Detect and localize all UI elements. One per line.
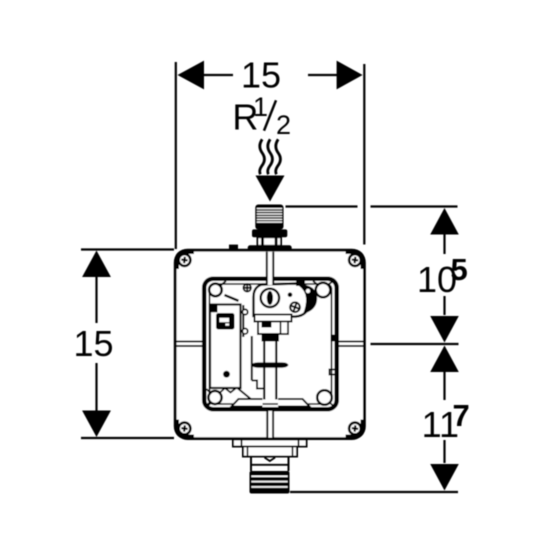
svg-text:7: 7 bbox=[453, 398, 470, 433]
svg-text:15: 15 bbox=[241, 55, 281, 96]
svg-text:5: 5 bbox=[451, 252, 468, 287]
svg-text:1: 1 bbox=[253, 92, 268, 122]
svg-text:2: 2 bbox=[276, 110, 291, 140]
svg-text:15: 15 bbox=[73, 323, 113, 364]
